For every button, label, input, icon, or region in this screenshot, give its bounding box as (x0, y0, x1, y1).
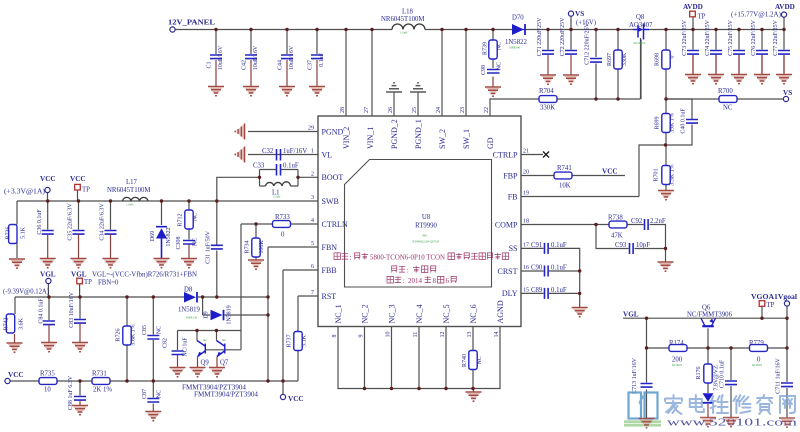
svg-text:R701: R701 (654, 168, 660, 181)
svg-text:R738: R738 (608, 215, 623, 222)
svg-text:9: 9 (359, 335, 365, 338)
svg-text:R704: R704 (539, 88, 554, 95)
svg-text:26: 26 (388, 107, 394, 113)
svg-text:VCC: VCC (70, 175, 86, 183)
svg-text::: : (407, 267, 409, 275)
svg-text:R699: R699 (655, 116, 661, 129)
svg-text:VIN_2: VIN_2 (342, 127, 351, 149)
svg-text:AO3407: AO3407 (629, 22, 653, 29)
svg-text:C36 0.1uF: C36 0.1uF (37, 209, 43, 235)
svg-text:D70: D70 (512, 15, 524, 22)
svg-text:5.1K: 5.1K (21, 226, 27, 239)
svg-text:C76 22uF/25V: C76 22uF/25V (751, 19, 757, 56)
svg-text:NC_5: NC_5 (442, 304, 451, 323)
svg-text:19: 19 (523, 191, 529, 197)
svg-text:NC_6: NC_6 (469, 304, 478, 323)
svg-text:VGL: VGL (623, 311, 639, 319)
svg-text::: : (403, 277, 405, 285)
svg-text:C308: C308 (176, 236, 182, 249)
svg-text:Q7: Q7 (220, 360, 229, 367)
svg-text:1uF/16V: 1uF/16V (283, 148, 307, 155)
svg-text:R174: R174 (669, 340, 684, 347)
svg-text:TP: TP (767, 302, 775, 309)
svg-text:RC0603: RC0603 (752, 363, 763, 367)
svg-text:VCC: VCC (40, 175, 56, 183)
svg-text:10: 10 (44, 387, 51, 394)
svg-text:C72 220uF/25V: C72 220uF/25V (560, 17, 566, 57)
svg-text:TP: TP (698, 14, 706, 21)
svg-text:VCC: VCC (288, 395, 304, 403)
svg-text:0.1uF: 0.1uF (283, 163, 299, 170)
svg-text:VL: VL (322, 150, 333, 159)
svg-text:7: 7 (311, 290, 314, 296)
svg-text:R736: R736 (6, 226, 12, 239)
svg-text:R731: R731 (92, 371, 107, 378)
svg-text:1N5819: 1N5819 (227, 305, 233, 324)
svg-text:17: 17 (523, 242, 529, 248)
svg-text:2014: 2014 (408, 277, 423, 285)
svg-text:0.1uF: 0.1uF (551, 242, 567, 249)
svg-text:FMMT3904/PZT3904: FMMT3904/PZT3904 (182, 385, 247, 392)
svg-text:5800-TCON6-0P10 TCON: 5800-TCON6-0P10 TCON (370, 253, 445, 261)
svg-text:hfe: hfe (222, 338, 226, 342)
svg-text:23: 23 (460, 107, 466, 113)
svg-text:VGL: VGL (40, 271, 56, 279)
svg-text:0.1uF: 0.1uF (551, 287, 567, 294)
svg-text:SW_2: SW_2 (438, 129, 447, 149)
svg-text:C34 22uF/6.3V: C34 22uF/6.3V (100, 203, 106, 241)
svg-text:R779: R779 (749, 340, 764, 347)
svg-text:RC0603: RC0603 (672, 363, 683, 367)
svg-text:1N5819: 1N5819 (178, 307, 201, 314)
svg-text:NC: NC (193, 238, 199, 246)
svg-text:TP: TP (84, 279, 92, 286)
svg-text:C89: C89 (531, 287, 543, 294)
svg-text:D9: D9 (204, 311, 210, 318)
svg-text:R176: R176 (696, 366, 702, 379)
svg-text:L18: L18 (402, 9, 414, 16)
svg-text:C1: C1 (207, 61, 213, 68)
svg-text:14: 14 (494, 332, 500, 338)
svg-text:FB: FB (508, 192, 518, 201)
svg-text:FBB: FBB (322, 266, 337, 275)
svg-text:NC: NC (193, 213, 199, 221)
svg-text:1.0uH: 1.0uH (400, 31, 408, 35)
svg-text:2K 1%: 2K 1% (93, 387, 112, 394)
svg-text:TP: TP (82, 187, 90, 194)
svg-text:C35 22uF/6.3V: C35 22uF/6.3V (68, 203, 74, 241)
svg-text:C712 220uF/25V: C712 220uF/25V (585, 22, 591, 65)
svg-text:PGND_1: PGND_1 (414, 119, 423, 149)
svg-text:10uF/16V: 10uF/16V (218, 45, 224, 70)
svg-text:12: 12 (440, 332, 446, 338)
svg-text:R740: R740 (462, 354, 468, 367)
svg-text:(+3.3V@1A): (+3.3V@1A) (4, 189, 45, 196)
svg-text:10pF: 10pF (636, 242, 650, 249)
svg-text:L17: L17 (126, 179, 138, 186)
svg-text:R726: R726 (116, 328, 122, 341)
svg-text:10uF/16V: 10uF/16V (253, 45, 259, 70)
svg-text:D8: D8 (184, 287, 193, 294)
svg-text:C90: C90 (531, 264, 543, 271)
svg-text:C91: C91 (531, 242, 542, 249)
svg-text:(-9.39V@0.12A): (-9.39V@0.12A) (3, 289, 49, 296)
svg-text:U8: U8 (422, 214, 431, 221)
svg-text:C40 0.1uF: C40 0.1uF (681, 108, 687, 134)
svg-text:VS: VS (783, 89, 792, 97)
svg-text:5.6K 1%: 5.6K 1% (131, 324, 137, 345)
svg-text:R741: R741 (557, 165, 572, 172)
svg-text:6: 6 (311, 264, 314, 270)
svg-text::: : (350, 254, 352, 262)
svg-text:10uF/16V: 10uF/16V (289, 45, 295, 70)
svg-text:FBP: FBP (503, 171, 518, 180)
svg-text:VGOA1Vgoal: VGOA1Vgoal (751, 293, 797, 301)
svg-text:0.1uF: 0.1uF (319, 52, 325, 67)
svg-text:SS: SS (509, 244, 518, 253)
svg-text:28: 28 (340, 107, 346, 113)
svg-text:FMMT3904/PZT3904: FMMT3904/PZT3904 (194, 392, 259, 399)
svg-text:C31 1uF/50V: C31 1uF/50V (206, 230, 212, 264)
svg-text:VCC: VCC (602, 168, 618, 176)
svg-text:FBN=0: FBN=0 (98, 280, 119, 287)
svg-text:6: 6 (446, 277, 450, 285)
svg-text:2: 2 (311, 171, 314, 177)
svg-text:C75 22uF/25V: C75 22uF/25V (728, 19, 734, 56)
svg-text:C32: C32 (262, 148, 274, 155)
svg-text:3: 3 (311, 195, 314, 201)
svg-text:C92: C92 (631, 218, 643, 225)
svg-text:BOOT: BOOT (322, 173, 344, 182)
svg-text:8: 8 (332, 335, 338, 338)
svg-text:(+15.77V@1.2A): (+15.77V@1.2A) (731, 12, 781, 19)
svg-text:C33: C33 (253, 163, 265, 170)
svg-text:12V_PANEL: 12V_PANEL (168, 19, 215, 27)
svg-text:C73 22uF/25V: C73 22uF/25V (682, 19, 688, 56)
svg-text:2.2uH: 2.2uH (273, 195, 281, 199)
svg-text:FBN: FBN (322, 243, 338, 252)
svg-text:R700: R700 (718, 88, 733, 95)
svg-text:1.0uH: 1.0uH (126, 203, 134, 207)
svg-text:C710 0.1uF: C710 0.1uF (720, 359, 726, 388)
svg-text:C93: C93 (615, 242, 627, 249)
svg-text:GD: GD (486, 137, 495, 149)
svg-text:7.8V@VZ: 7.8V@VZ (714, 365, 720, 391)
svg-text:C82: C82 (163, 338, 169, 348)
svg-text:10: 10 (386, 332, 392, 338)
svg-text:5: 5 (311, 241, 314, 247)
svg-text:C83 10uF/16V: C83 10uF/16V (69, 291, 75, 328)
svg-text:16: 16 (523, 265, 529, 271)
svg-text:C37: C37 (308, 60, 314, 70)
svg-text:20: 20 (523, 170, 529, 176)
svg-text:NC: NC (497, 42, 503, 50)
svg-text:CTRLN: CTRLN (322, 220, 348, 229)
svg-text:C713 1uF/16V: C713 1uF/16V (632, 357, 638, 394)
svg-text:R739: R739 (483, 42, 489, 55)
svg-text:0: 0 (281, 232, 285, 239)
svg-text:R712: R712 (178, 213, 184, 226)
svg-text:PGND_2: PGND_2 (390, 119, 399, 149)
svg-text:Q9: Q9 (201, 360, 210, 367)
svg-text:SW_1: SW_1 (462, 129, 471, 149)
svg-text:22: 22 (484, 107, 490, 113)
svg-text:NC/1uF: NC/1uF (183, 337, 189, 357)
svg-text:Q6: Q6 (702, 305, 711, 312)
svg-text:330K: 330K (622, 52, 628, 66)
svg-text:11: 11 (413, 332, 419, 338)
svg-text:NC_1: NC_1 (334, 304, 343, 323)
svg-text:AVDD: AVDD (775, 3, 795, 11)
svg-text:R698: R698 (655, 53, 661, 66)
svg-text:13: 13 (467, 332, 473, 338)
svg-text:3.6K: 3.6K (19, 317, 25, 330)
svg-text:0: 0 (670, 56, 676, 59)
svg-text:C88 1uF 6.3V: C88 1uF 6.3V (68, 375, 74, 410)
svg-text:VGL: VGL (71, 271, 87, 279)
svg-text:AO3407A: AO3407A (633, 41, 646, 45)
svg-text:NC: NC (723, 105, 733, 112)
svg-text:NR6045T100M: NR6045T100M (107, 187, 150, 194)
svg-text:C85: C85 (142, 325, 148, 335)
svg-text:hfe: hfe (203, 338, 207, 342)
svg-text:24: 24 (436, 107, 442, 113)
svg-text:COMP: COMP (495, 220, 518, 229)
svg-text:R733: R733 (275, 214, 290, 221)
svg-text:C87: C87 (142, 389, 148, 399)
svg-text:R735: R735 (40, 371, 55, 378)
svg-text:NC_3: NC_3 (388, 304, 397, 323)
svg-text:RST: RST (322, 292, 337, 301)
svg-text:C42: C42 (242, 60, 248, 70)
svg-text:C74 22uF/25V: C74 22uF/25V (705, 19, 711, 56)
svg-text:39K 1%: 39K 1% (670, 113, 676, 133)
svg-text:2.2nF: 2.2nF (650, 218, 666, 225)
svg-text:VS: VS (575, 10, 584, 18)
svg-text:C98: C98 (481, 65, 487, 75)
svg-text:3.3K 1%: 3.3K 1% (670, 164, 676, 185)
svg-text:1N5822: 1N5822 (166, 227, 172, 246)
svg-text:MBR130: MBR130 (186, 316, 198, 320)
svg-text:RT9990GQW-QFN28: RT9990GQW-QFN28 (413, 240, 440, 244)
svg-text:10K: 10K (559, 183, 571, 190)
svg-text:47K: 47K (611, 233, 623, 240)
svg-text:VCC: VCC (8, 371, 24, 379)
svg-text:25: 25 (412, 107, 418, 113)
svg-text:NC: NC (497, 62, 503, 70)
svg-text:R734: R734 (245, 240, 251, 253)
svg-text:C71 220uF/25V: C71 220uF/25V (537, 17, 543, 57)
svg-text:1: 1 (311, 149, 314, 155)
svg-text:B01: B01 (423, 234, 429, 238)
svg-text:4: 4 (311, 218, 314, 224)
svg-text:SWB: SWB (322, 197, 339, 206)
svg-text:C84 0.1uF: C84 0.1uF (39, 298, 45, 324)
svg-text:R697: R697 (607, 53, 613, 66)
svg-text:CRST: CRST (497, 267, 517, 276)
svg-text:15: 15 (523, 287, 529, 293)
svg-text:330K: 330K (540, 105, 555, 112)
svg-text:CTRLP: CTRLP (493, 150, 518, 159)
svg-text:PGND: PGND (322, 127, 344, 136)
svg-text:NC/FMMT3906: NC/FMMT3906 (687, 312, 733, 319)
svg-text:D69: D69 (150, 231, 156, 241)
svg-text:DLY: DLY (502, 289, 518, 298)
svg-text:NC_4: NC_4 (415, 304, 424, 323)
svg-text:MBR340: MBR340 (509, 46, 521, 50)
svg-text:AGND: AGND (496, 300, 505, 323)
svg-text:Q8: Q8 (636, 14, 645, 21)
svg-text:NC: NC (157, 326, 163, 334)
svg-text:VGL=-(VCC-Vfbn)R726/R731+FBN: VGL=-(VCC-Vfbn)R726/R731+FBN (92, 272, 197, 279)
svg-text:VIN_1: VIN_1 (366, 127, 375, 149)
svg-text:NC_2: NC_2 (361, 304, 370, 323)
svg-text:5.1K: 5.1K (302, 334, 308, 347)
svg-text:C77 22uF/25V: C77 22uF/25V (773, 19, 779, 56)
svg-text:18: 18 (523, 219, 529, 225)
svg-text:R737: R737 (287, 334, 293, 347)
svg-text:21: 21 (523, 149, 529, 155)
svg-text:0.1uF: 0.1uF (551, 264, 567, 271)
svg-text:27: 27 (364, 107, 370, 113)
svg-text:R742: R742 (4, 317, 10, 330)
svg-text:100K: 100K (259, 240, 265, 254)
svg-text:NC: NC (157, 390, 163, 398)
svg-text:C44: C44 (278, 60, 284, 70)
svg-text:8: 8 (433, 277, 437, 285)
svg-text:AVDD: AVDD (683, 3, 703, 11)
svg-text:29: 29 (308, 126, 314, 132)
svg-text:C711 1uF/16V: C711 1uF/16V (776, 358, 782, 394)
svg-text:NR6045T100M: NR6045T100M (381, 16, 424, 23)
svg-text:NC: NC (477, 356, 483, 364)
svg-text:RT9990: RT9990 (415, 223, 437, 230)
